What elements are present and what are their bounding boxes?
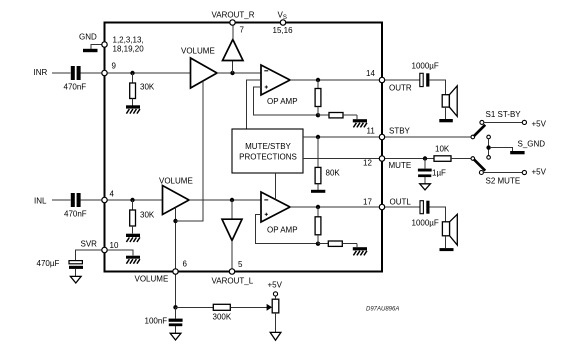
svg-text:OUTL: OUTL — [390, 198, 412, 207]
ground (open triangle) below 1uF — [420, 184, 431, 190]
IC body U1 outline — [105, 23, 383, 272]
buffer VAROUT_L triangle — [222, 200, 242, 269]
wire op-amp R feedback — [254, 87, 319, 115]
junction on pin4 wire — [130, 198, 134, 202]
svg-text:1000µF: 1000µF — [412, 62, 439, 71]
resistor feedback R (vertical) — [315, 80, 321, 115]
resistor 30K (R input) — [130, 73, 136, 105]
wire INR to C input — [52, 72, 71, 74]
svg-text:17: 17 — [363, 198, 372, 207]
svg-text:6: 6 — [183, 260, 188, 269]
wire to S_GND symbol — [491, 148, 513, 151]
junction volume control — [173, 219, 177, 223]
svg-text:S_GND: S_GND — [518, 140, 546, 149]
svg-text:+5V: +5V — [268, 281, 283, 290]
svg-text:4: 4 — [110, 190, 115, 199]
wiper arrow — [267, 304, 273, 311]
ground (open triangle) below 100nF — [170, 333, 181, 340]
junction 1uF node — [423, 156, 427, 160]
switch S1 +5V contact — [480, 120, 484, 124]
svg-text:15,16: 15,16 — [273, 26, 294, 35]
wire block to pin 12 — [303, 158, 382, 160]
capacitor 1uF — [418, 159, 432, 184]
wire S1 gnd contact to S2 gnd contact — [488, 139, 490, 156]
wire C to pin 9 — [81, 72, 102, 74]
svg-text:VAROUT_R: VAROUT_R — [212, 11, 255, 20]
wire pin9 to volume R — [107, 72, 190, 74]
terminal +5V (pot) — [273, 292, 277, 296]
svg-text:+5V: +5V — [532, 168, 547, 177]
capacitor 1000uF (OUTL) — [420, 201, 430, 214]
wire C to pin 4 — [81, 199, 102, 201]
wire INL to C input — [52, 199, 71, 201]
capacitor 470uF — [69, 261, 83, 277]
wire rail to 300K — [176, 306, 214, 308]
resistor feedback L (vertical) — [315, 207, 321, 244]
speaker L — [442, 214, 457, 248]
buffer VAROUT_R triangle — [223, 25, 244, 73]
pin 14 terminal — [379, 77, 384, 82]
svg-text:GND: GND — [79, 33, 97, 42]
junction on pin9 wire — [130, 71, 134, 75]
svg-text:INL: INL — [34, 197, 47, 206]
svg-text:VOLUME: VOLUME — [159, 177, 193, 186]
svg-text:5: 5 — [238, 260, 243, 269]
pin 6 terminal — [173, 269, 178, 274]
wire pin12 to 10K — [385, 158, 434, 160]
resistor 80K — [315, 137, 321, 190]
ground (open triangle) below 470uF — [70, 276, 81, 283]
svg-text:MUTE/STBY: MUTE/STBY — [245, 142, 291, 151]
svg-text:470µF: 470µF — [37, 259, 60, 268]
wire mute/stby to op-amp R control — [247, 80, 261, 129]
svg-text:1,2,3,13,: 1,2,3,13, — [113, 36, 144, 45]
junction rail — [173, 305, 177, 309]
potentiometer — [272, 296, 279, 332]
wire volume L out to node D — [189, 199, 261, 201]
svg-text:SVR: SVR — [81, 240, 98, 249]
terminal +5V (S1) — [522, 120, 526, 124]
wire pin6 volume control — [175, 207, 177, 268]
ground (hatched) op-amp R feedback — [353, 119, 367, 127]
junction node A — [230, 71, 234, 75]
ground (signal) below speaker L — [440, 248, 454, 251]
svg-text:470nF: 470nF — [64, 83, 87, 92]
capacitor 1000uF (OUTR) — [420, 73, 430, 86]
svg-text:OP AMP: OP AMP — [267, 97, 298, 106]
ground (hatched) below 30K L — [126, 234, 140, 242]
op-amp R plus marker — [265, 85, 268, 88]
wire pin14 to 1000uF — [385, 79, 420, 81]
pin 11 terminal — [379, 134, 384, 139]
pin 7 terminal — [230, 20, 235, 25]
pin GND terminal — [102, 42, 107, 47]
svg-text:470nF: 470nF — [64, 210, 87, 219]
svg-text:S1 ST-BY: S1 ST-BY — [486, 110, 522, 119]
junction node C — [316, 78, 320, 82]
pin 12 terminal — [379, 156, 384, 161]
junction node D — [230, 198, 234, 202]
pin 4 terminal — [102, 197, 107, 202]
wire block to pin 11 — [303, 136, 382, 138]
resistor feedback L (horizontal) — [318, 241, 357, 247]
switch S1 pivot — [471, 135, 475, 139]
op-amp L plus marker — [265, 213, 268, 216]
block MUTE/STBY PROTECTIONS — [232, 129, 303, 173]
ground (signal) at GND pin — [83, 45, 102, 53]
wire op-amp R output to pin 14 — [290, 79, 382, 81]
resistor feedback R (horizontal) — [318, 113, 357, 120]
speaker R — [442, 86, 457, 119]
svg-text:11: 11 — [367, 127, 376, 136]
svg-text:1µF: 1µF — [432, 169, 446, 178]
svg-text:1000µF: 1000µF — [412, 219, 439, 228]
junction S_GND node — [486, 145, 490, 149]
capacitor 470nF (INR) — [71, 66, 81, 80]
svg-text:OUTR: OUTR — [389, 84, 412, 93]
resistor 30K (L input) — [130, 200, 136, 234]
svg-text:12: 12 — [363, 159, 372, 168]
pin 15,16 terminal — [280, 20, 285, 25]
svg-text:PROTECTIONS: PROTECTIONS — [239, 152, 297, 161]
capacitor 100nF — [169, 307, 183, 333]
junction node F — [316, 205, 320, 209]
ground (hatched) below 30K R — [126, 105, 140, 113]
wire mute/stby to op-amp L control — [275, 173, 277, 200]
svg-text:INR: INR — [34, 68, 48, 77]
switch S2 lever — [474, 159, 486, 171]
switch S1 lever — [474, 125, 486, 137]
svg-text:S2 MUTE: S2 MUTE — [486, 177, 521, 186]
pin 5 terminal — [229, 269, 234, 274]
svg-text:100nF: 100nF — [145, 317, 168, 326]
ground (open triangle) below pot — [270, 332, 281, 340]
svg-text:VOLUME: VOLUME — [135, 275, 169, 284]
wire 300K to pot wiper — [230, 306, 266, 308]
svg-text:OP AMP: OP AMP — [267, 226, 298, 235]
wire pin11 to S1 — [385, 136, 471, 138]
switch S2 pivot — [471, 157, 475, 161]
svg-text:10K: 10K — [435, 145, 450, 154]
wire pin10 internal to ground — [107, 250, 133, 256]
svg-text:VOLUME: VOLUME — [181, 47, 215, 56]
wire S1 contact to +5V — [484, 121, 522, 123]
junction node G — [316, 135, 320, 139]
wire pin4 to volume L — [107, 199, 162, 201]
amplifier VOLUME (R) triangle — [191, 58, 218, 88]
ground (hatched) at SVR internal — [126, 256, 140, 264]
svg-text:D97AU896A: D97AU896A — [366, 307, 399, 313]
op-amp R minus marker — [264, 70, 268, 72]
svg-text:7: 7 — [240, 26, 245, 35]
ground (hatched) op-amp L feedback — [353, 247, 367, 255]
wire S2 contact to +5V — [484, 172, 523, 174]
switch S2 +5V contact — [479, 171, 483, 175]
capacitor 470nF (INL) — [71, 193, 81, 207]
ground (signal) S_GND — [510, 151, 524, 154]
ground (signal) below 80K — [311, 190, 325, 193]
op-amp U1B (L) triangle — [261, 192, 290, 222]
op-amp L minus marker — [264, 199, 268, 201]
wire op-amp L output to pin 17 — [290, 206, 382, 208]
svg-text:30K: 30K — [140, 83, 155, 92]
svg-text:30K: 30K — [140, 211, 155, 220]
svg-text:VAROUT_L: VAROUT_L — [212, 277, 254, 286]
op-amp U1A (R) triangle — [261, 65, 290, 95]
pin 9 terminal — [102, 70, 107, 75]
svg-text:300K: 300K — [213, 313, 232, 322]
svg-text:80K: 80K — [326, 169, 341, 178]
wire pin6 below to rail — [175, 274, 177, 307]
svg-text:STBY: STBY — [389, 127, 411, 136]
amplifier VOLUME (L) triangle — [163, 186, 190, 215]
pin 10 terminal — [102, 247, 107, 252]
svg-text:18,19,20: 18,19,20 — [113, 45, 145, 54]
wire 1000uF to speaker L — [430, 207, 446, 222]
wire pin17 to 1000uF — [385, 206, 420, 208]
resistor 300K — [213, 304, 230, 310]
svg-text:10: 10 — [110, 241, 119, 250]
svg-text:14: 14 — [366, 69, 375, 78]
wire 10K to S2 — [451, 158, 471, 160]
wire volume control to volume R — [176, 81, 204, 221]
wire volume R out to node A — [217, 72, 261, 74]
svg-text:9: 9 — [112, 62, 117, 71]
pin 17 terminal — [379, 204, 384, 209]
wire op-amp L feedback — [256, 214, 319, 243]
terminal +5V (S2) — [522, 170, 526, 174]
wire 1000uF to speaker R — [429, 80, 445, 95]
junction node E — [316, 242, 320, 246]
svg-text:MUTE: MUTE — [389, 161, 412, 170]
switch S1 gnd contact — [487, 135, 491, 139]
svg-text:+5V: +5V — [532, 120, 547, 129]
ground (signal) below speaker R — [439, 119, 453, 122]
switch S2 gnd contact — [487, 156, 491, 160]
resistor 10K — [434, 156, 451, 162]
junction node B — [316, 113, 320, 117]
wire pin10 to 470uF — [76, 250, 102, 261]
